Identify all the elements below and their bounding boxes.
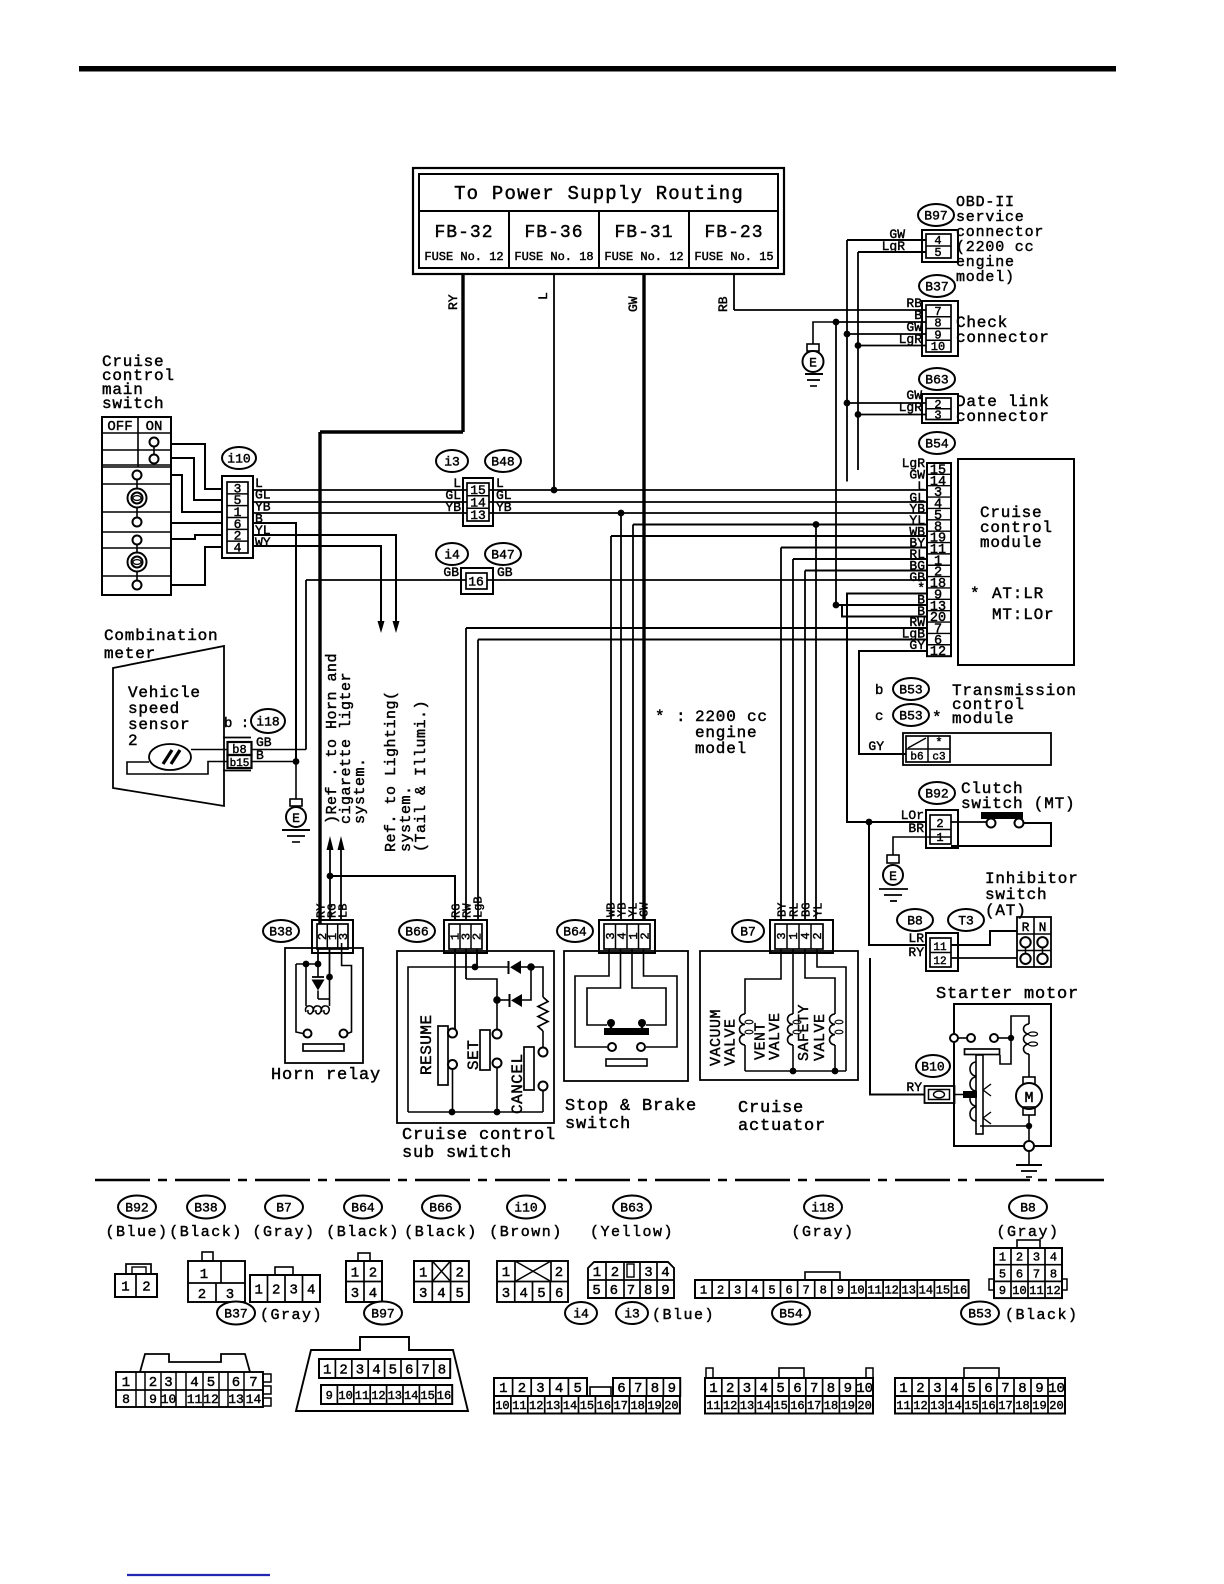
svg-text:10: 10 — [338, 1389, 352, 1403]
svg-text:B97: B97 — [924, 209, 947, 224]
svg-text:connector: connector — [956, 408, 1050, 426]
svg-text:(Gray): (Gray) — [996, 1224, 1059, 1241]
svg-text:14: 14 — [563, 1399, 577, 1413]
svg-text:7: 7 — [1001, 1381, 1009, 1397]
svg-text:connector: connector — [956, 329, 1050, 347]
svg-text:18: 18 — [824, 1399, 838, 1413]
svg-text:2: 2 — [555, 1265, 563, 1281]
svg-text:MT:LOr: MT:LOr — [992, 606, 1054, 624]
svg-text:4: 4 — [234, 540, 242, 555]
svg-text:B64: B64 — [563, 925, 587, 940]
svg-text:YB: YB — [496, 500, 512, 515]
svg-text:17: 17 — [998, 1399, 1012, 1413]
svg-text:(Tail & Illumi.): (Tail & Illumi.) — [413, 700, 430, 852]
svg-text:N: N — [1039, 920, 1047, 935]
svg-text:i3: i3 — [444, 455, 460, 470]
svg-text:6: 6 — [984, 1381, 992, 1397]
svg-text:8: 8 — [1018, 1381, 1026, 1397]
svg-text:7: 7 — [249, 1375, 257, 1391]
svg-text:i4: i4 — [573, 1307, 589, 1322]
svg-text:YL: YL — [812, 903, 826, 917]
svg-text:Cruise: Cruise — [738, 1099, 804, 1118]
svg-text:3: 3 — [934, 409, 941, 423]
svg-text:*: * — [970, 585, 980, 603]
svg-text:B63: B63 — [620, 1201, 643, 1216]
svg-text:2: 2 — [717, 1283, 724, 1297]
svg-text:switch: switch — [565, 1115, 631, 1134]
svg-text:FUSE No. 15: FUSE No. 15 — [694, 250, 773, 264]
svg-text:9: 9 — [661, 1283, 669, 1299]
svg-text:2: 2 — [198, 1287, 206, 1303]
svg-text:8: 8 — [827, 1381, 835, 1397]
svg-text:1: 1 — [936, 831, 943, 845]
svg-text:GB: GB — [443, 565, 459, 580]
svg-text:6: 6 — [1016, 1267, 1023, 1281]
svg-text:17: 17 — [807, 1399, 821, 1413]
svg-text:4: 4 — [1050, 1251, 1057, 1265]
svg-text:B66: B66 — [405, 925, 428, 940]
svg-text:(Gray): (Gray) — [252, 1224, 315, 1241]
svg-text:1: 1 — [502, 1265, 510, 1281]
svg-text:LR: LR — [908, 931, 924, 946]
svg-text:M: M — [1024, 1090, 1033, 1107]
svg-text:14: 14 — [757, 1399, 771, 1413]
svg-text:LB: LB — [337, 904, 351, 918]
svg-text:GB: GB — [497, 565, 513, 580]
svg-text:FUSE No. 12: FUSE No. 12 — [604, 250, 683, 264]
svg-text:VALVE: VALVE — [767, 1012, 784, 1060]
svg-text:3: 3 — [502, 1286, 510, 1302]
svg-text:15: 15 — [580, 1399, 594, 1413]
svg-text:8: 8 — [820, 1283, 827, 1297]
svg-text:WY: WY — [255, 535, 271, 550]
svg-text:11: 11 — [706, 1399, 720, 1413]
svg-text:2: 2 — [128, 732, 138, 750]
svg-text:12: 12 — [933, 956, 946, 968]
svg-text:YB: YB — [445, 500, 461, 515]
svg-text:10: 10 — [856, 1381, 873, 1397]
svg-text:To Power Supply Routing: To Power Supply Routing — [454, 183, 744, 205]
svg-text:1: 1 — [499, 1381, 507, 1397]
svg-text:20: 20 — [857, 1399, 871, 1413]
svg-text:20: 20 — [1049, 1399, 1063, 1413]
svg-text:(Black): (Black) — [404, 1224, 478, 1241]
svg-text:9: 9 — [668, 1381, 676, 1397]
svg-text:B7: B7 — [276, 1201, 292, 1216]
svg-text:i4: i4 — [444, 548, 460, 563]
svg-text:system.: system. — [352, 757, 369, 824]
svg-text:9: 9 — [837, 1283, 844, 1297]
svg-text:i10: i10 — [514, 1201, 537, 1216]
svg-text:8: 8 — [438, 1363, 446, 1379]
svg-text:GY: GY — [909, 638, 925, 653]
svg-text:6: 6 — [232, 1375, 240, 1391]
svg-text:FB-31: FB-31 — [614, 223, 673, 243]
svg-text:B53: B53 — [968, 1307, 991, 1322]
svg-text:4: 4 — [372, 1363, 380, 1379]
svg-text:E: E — [292, 811, 300, 826]
svg-text:5: 5 — [934, 246, 941, 260]
svg-text:8: 8 — [644, 1283, 652, 1299]
svg-text:SET: SET — [465, 1040, 483, 1070]
svg-text:2: 2 — [456, 1265, 464, 1281]
svg-text:12: 12 — [203, 1392, 219, 1407]
svg-text:10: 10 — [1048, 1381, 1065, 1397]
svg-text:8: 8 — [122, 1392, 130, 1407]
svg-text:RESUME: RESUME — [418, 1014, 436, 1075]
svg-text:Cruise control: Cruise control — [402, 1126, 556, 1145]
svg-text:6: 6 — [793, 1381, 801, 1397]
svg-text:1: 1 — [351, 1265, 359, 1281]
svg-text:2: 2 — [638, 932, 652, 939]
svg-text:GW: GW — [626, 296, 641, 312]
svg-text:i3: i3 — [624, 1307, 640, 1322]
svg-text:2: 2 — [518, 1381, 526, 1397]
svg-text:FUSE No. 18: FUSE No. 18 — [514, 250, 593, 264]
svg-text:16: 16 — [597, 1399, 611, 1413]
svg-text:12: 12 — [884, 1283, 898, 1297]
svg-text:4: 4 — [661, 1265, 669, 1281]
svg-text:10: 10 — [495, 1399, 509, 1413]
svg-text:3: 3 — [226, 1287, 234, 1303]
svg-text:11: 11 — [1029, 1284, 1043, 1298]
svg-text:13: 13 — [930, 1399, 944, 1413]
svg-text:b6: b6 — [910, 752, 923, 764]
svg-text:switch (MT): switch (MT) — [961, 795, 1075, 813]
svg-text:16: 16 — [468, 575, 484, 590]
svg-text:2: 2 — [369, 1265, 377, 1281]
svg-text:GY: GY — [868, 739, 884, 754]
svg-text:*: * — [655, 708, 665, 726]
svg-text:1: 1 — [255, 1283, 263, 1299]
svg-text:5: 5 — [776, 1381, 784, 1397]
svg-text:3: 3 — [734, 1283, 741, 1297]
svg-text:B48: B48 — [491, 455, 514, 470]
svg-text:7: 7 — [1033, 1267, 1040, 1281]
svg-text:8: 8 — [651, 1381, 659, 1397]
svg-text:BR: BR — [908, 821, 924, 836]
svg-text:switch: switch — [102, 395, 164, 413]
svg-text:12: 12 — [529, 1399, 543, 1413]
svg-text:1: 1 — [122, 1375, 130, 1391]
svg-text:GW: GW — [638, 902, 652, 917]
svg-text:1: 1 — [419, 1265, 427, 1281]
svg-text:16: 16 — [981, 1399, 995, 1413]
svg-text:5: 5 — [456, 1286, 464, 1302]
svg-text:B53: B53 — [899, 709, 922, 724]
svg-text:B37: B37 — [224, 1307, 247, 1322]
svg-text:1: 1 — [999, 1251, 1006, 1265]
svg-text:11: 11 — [867, 1283, 881, 1297]
svg-text:SAFETY: SAFETY — [796, 1004, 813, 1061]
svg-text:4: 4 — [519, 1286, 527, 1302]
svg-text:13: 13 — [470, 508, 486, 523]
svg-text:RY: RY — [908, 945, 924, 960]
svg-text:12: 12 — [371, 1389, 385, 1403]
svg-text:15: 15 — [420, 1389, 434, 1403]
svg-text:5: 5 — [592, 1283, 600, 1299]
svg-text:2: 2 — [916, 1381, 924, 1397]
svg-text:1: 1 — [899, 1381, 907, 1397]
svg-text:FB-32: FB-32 — [434, 223, 493, 243]
svg-text:1: 1 — [200, 1267, 208, 1283]
svg-text:13: 13 — [388, 1389, 402, 1403]
svg-text:6: 6 — [405, 1363, 413, 1379]
svg-text:5: 5 — [573, 1381, 581, 1397]
svg-text:E: E — [809, 356, 817, 371]
svg-text:module: module — [952, 710, 1014, 728]
svg-text:7: 7 — [810, 1381, 818, 1397]
svg-text:B53: B53 — [899, 683, 922, 698]
svg-text:L: L — [536, 292, 551, 300]
svg-text:B66: B66 — [429, 1201, 452, 1216]
svg-text:5: 5 — [768, 1283, 775, 1297]
svg-text:10: 10 — [931, 340, 945, 354]
svg-text:11: 11 — [896, 1399, 910, 1413]
svg-text:(Black): (Black) — [169, 1224, 243, 1241]
svg-text:3: 3 — [419, 1286, 427, 1302]
svg-text:5: 5 — [389, 1363, 397, 1379]
svg-text:3: 3 — [337, 933, 351, 940]
svg-text:(Yellow): (Yellow) — [590, 1224, 674, 1241]
svg-text:(Brown): (Brown) — [489, 1224, 563, 1241]
svg-text:10: 10 — [161, 1392, 177, 1407]
svg-text:13: 13 — [740, 1399, 754, 1413]
svg-text:12: 12 — [723, 1399, 737, 1413]
svg-text:2: 2 — [272, 1283, 280, 1299]
svg-text:B54: B54 — [925, 437, 949, 452]
svg-text:E: E — [889, 869, 897, 884]
svg-text:B92: B92 — [125, 1201, 148, 1216]
svg-text:b :: b : — [224, 716, 249, 732]
svg-text:13: 13 — [546, 1399, 560, 1413]
svg-text:RY: RY — [906, 1080, 922, 1095]
svg-text:3: 3 — [743, 1381, 751, 1397]
svg-text:4: 4 — [190, 1375, 198, 1391]
svg-text:12: 12 — [1046, 1284, 1060, 1298]
svg-text:(Blue): (Blue) — [652, 1307, 715, 1324]
svg-text:*: * — [935, 736, 942, 750]
svg-text:i18: i18 — [811, 1201, 834, 1216]
svg-text:2: 2 — [471, 933, 485, 940]
svg-text:(Black): (Black) — [1005, 1307, 1079, 1324]
svg-text:3: 3 — [290, 1283, 298, 1299]
svg-text:2: 2 — [142, 1280, 150, 1296]
svg-text:9: 9 — [1035, 1381, 1043, 1397]
svg-text:10: 10 — [1012, 1284, 1026, 1298]
svg-text:2: 2 — [611, 1265, 619, 1281]
svg-text:3: 3 — [933, 1381, 941, 1397]
svg-text:b8: b8 — [232, 743, 246, 757]
svg-text:19: 19 — [841, 1399, 855, 1413]
svg-text:OFF: OFF — [107, 419, 132, 435]
svg-text:2: 2 — [726, 1381, 734, 1397]
svg-text:T3: T3 — [958, 914, 974, 929]
svg-text:*: * — [932, 709, 942, 727]
svg-text:sub switch: sub switch — [402, 1144, 512, 1163]
svg-text:i10: i10 — [227, 452, 250, 467]
svg-text:4: 4 — [555, 1381, 563, 1397]
svg-text:RY: RY — [446, 294, 461, 310]
svg-text:14: 14 — [947, 1399, 961, 1413]
svg-text:5: 5 — [999, 1267, 1006, 1281]
svg-text:(Gray): (Gray) — [791, 1224, 854, 1241]
svg-text:18: 18 — [1015, 1399, 1029, 1413]
svg-text:13: 13 — [228, 1392, 244, 1407]
svg-text:3: 3 — [536, 1381, 544, 1397]
svg-text:B10: B10 — [921, 1060, 944, 1075]
svg-text:19: 19 — [1032, 1399, 1046, 1413]
svg-text:16: 16 — [790, 1399, 804, 1413]
svg-text:1: 1 — [593, 1265, 601, 1281]
svg-text:B47: B47 — [491, 548, 514, 563]
svg-text:14: 14 — [246, 1392, 262, 1407]
svg-text:LgR: LgR — [899, 332, 923, 347]
svg-text:B38: B38 — [269, 925, 292, 940]
svg-text:CANCEL: CANCEL — [509, 1053, 527, 1114]
svg-text:15: 15 — [964, 1399, 978, 1413]
svg-text:6: 6 — [785, 1283, 792, 1297]
svg-text:15: 15 — [773, 1399, 787, 1413]
svg-text:1: 1 — [709, 1381, 717, 1397]
svg-text:4: 4 — [950, 1381, 958, 1397]
svg-text:16: 16 — [953, 1283, 967, 1297]
svg-text:10: 10 — [850, 1283, 864, 1297]
svg-text:module: module — [980, 534, 1042, 552]
svg-text:11: 11 — [355, 1389, 369, 1403]
svg-text:actuator: actuator — [738, 1117, 826, 1136]
svg-text:5: 5 — [967, 1381, 975, 1397]
svg-text:17: 17 — [614, 1399, 628, 1413]
svg-text:1: 1 — [700, 1283, 707, 1297]
svg-text:B97: B97 — [371, 1307, 394, 1322]
svg-text:16: 16 — [437, 1389, 451, 1403]
svg-text:4: 4 — [760, 1381, 768, 1397]
svg-text:model: model — [695, 740, 747, 758]
svg-text:2: 2 — [149, 1375, 157, 1391]
svg-text:B92: B92 — [925, 787, 948, 802]
svg-text:8: 8 — [1050, 1267, 1057, 1281]
svg-text:RB: RB — [716, 296, 731, 312]
svg-text:11: 11 — [187, 1392, 203, 1407]
svg-text:19: 19 — [647, 1399, 661, 1413]
svg-text:c3: c3 — [932, 752, 945, 764]
svg-text:18: 18 — [630, 1399, 644, 1413]
svg-text:14: 14 — [404, 1389, 418, 1403]
svg-text:2: 2 — [811, 932, 825, 939]
svg-text:13: 13 — [902, 1283, 916, 1297]
svg-text:7: 7 — [634, 1381, 642, 1397]
svg-text:(Black): (Black) — [326, 1224, 400, 1241]
svg-text:b15: b15 — [230, 758, 250, 770]
svg-text:11: 11 — [933, 942, 947, 954]
svg-text:7: 7 — [627, 1283, 635, 1299]
svg-text:1: 1 — [323, 1363, 331, 1379]
svg-text:4: 4 — [437, 1286, 445, 1302]
svg-text:14: 14 — [919, 1283, 933, 1297]
svg-text:FUSE No. 12: FUSE No. 12 — [424, 250, 503, 264]
svg-text:6: 6 — [555, 1286, 563, 1302]
svg-text:4: 4 — [307, 1283, 315, 1299]
svg-text:7: 7 — [421, 1363, 429, 1379]
svg-text:FB-36: FB-36 — [524, 223, 583, 243]
svg-text:B8: B8 — [907, 914, 923, 929]
svg-text:9: 9 — [999, 1284, 1006, 1298]
svg-text:Stop & Brake: Stop & Brake — [565, 1097, 697, 1116]
svg-text:B8: B8 — [1020, 1201, 1036, 1216]
svg-text:9: 9 — [149, 1392, 157, 1407]
svg-text:15: 15 — [936, 1283, 950, 1297]
svg-text:3: 3 — [356, 1363, 364, 1379]
svg-text:VALVE: VALVE — [812, 1013, 829, 1061]
svg-text:Horn relay: Horn relay — [271, 1066, 381, 1085]
svg-text:B7: B7 — [740, 925, 756, 940]
svg-text:3: 3 — [644, 1265, 652, 1281]
svg-text:3: 3 — [351, 1286, 359, 1302]
svg-text:7: 7 — [803, 1283, 810, 1297]
svg-text:2: 2 — [339, 1363, 347, 1379]
svg-text:VALVE: VALVE — [723, 1018, 740, 1066]
svg-text:(Gray): (Gray) — [260, 1307, 323, 1324]
svg-text:3: 3 — [1033, 1251, 1040, 1265]
svg-text:i18: i18 — [256, 715, 279, 730]
svg-text:5: 5 — [207, 1375, 215, 1391]
svg-text:6: 6 — [617, 1381, 625, 1397]
svg-text:5: 5 — [537, 1286, 545, 1302]
svg-text:B38: B38 — [194, 1201, 217, 1216]
svg-text:AT:LR: AT:LR — [992, 585, 1044, 603]
svg-text:B37: B37 — [925, 280, 948, 295]
svg-text:ON: ON — [146, 419, 163, 435]
svg-text:12: 12 — [930, 645, 946, 660]
svg-text:6: 6 — [610, 1283, 618, 1299]
svg-text:FB-23: FB-23 — [704, 223, 763, 243]
svg-text:2: 2 — [936, 817, 943, 831]
svg-text:9: 9 — [326, 1389, 333, 1403]
svg-text:B64: B64 — [351, 1201, 375, 1216]
svg-text:B54: B54 — [779, 1307, 803, 1322]
svg-text::: : — [676, 708, 686, 726]
svg-text:4: 4 — [369, 1286, 377, 1302]
svg-text:2: 2 — [1016, 1251, 1023, 1265]
svg-text:9: 9 — [844, 1381, 852, 1397]
svg-text:(Blue): (Blue) — [105, 1224, 168, 1241]
svg-text:B63: B63 — [925, 373, 948, 388]
svg-text:Starter motor: Starter motor — [936, 985, 1079, 1004]
svg-text:4: 4 — [751, 1283, 758, 1297]
svg-text:model): model) — [956, 269, 1015, 286]
svg-text:1: 1 — [121, 1280, 129, 1296]
svg-text:3: 3 — [164, 1375, 172, 1391]
svg-text:Combination: Combination — [104, 627, 218, 645]
svg-text:11: 11 — [512, 1399, 526, 1413]
svg-text:12: 12 — [913, 1399, 927, 1413]
svg-text:20: 20 — [664, 1399, 678, 1413]
svg-text:R: R — [1022, 920, 1030, 935]
